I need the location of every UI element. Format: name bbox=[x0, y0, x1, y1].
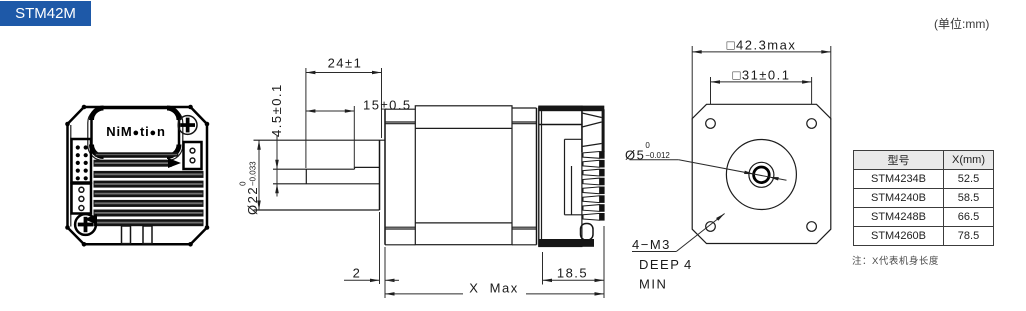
pilot boss circle bbox=[726, 140, 796, 210]
shaft flat step bbox=[354, 167, 356, 169]
mounting hole TR bbox=[807, 119, 817, 129]
title badge STM42M bbox=[0, 1, 91, 26]
dim Ø22 0/-0.033 vertical bbox=[258, 140, 260, 210]
svg-text:X Max: X Max bbox=[469, 281, 518, 296]
svg-text:15±0.5: 15±0.5 bbox=[363, 98, 412, 113]
boss front face bbox=[379, 140, 381, 210]
table note bbox=[852, 253, 939, 267]
dim square 31±0.1 bbox=[710, 77, 712, 104]
dim 15±0.5 bbox=[353, 106, 355, 168]
svg-text:18.5: 18.5 bbox=[557, 266, 588, 281]
octagon corner nodes bbox=[82, 105, 87, 110]
svg-text:NiM●ti●n: NiM●ti●n bbox=[106, 124, 165, 139]
svg-text:24±1: 24±1 bbox=[328, 56, 363, 71]
dim 2 bbox=[379, 212, 381, 284]
svg-text:MIN: MIN bbox=[639, 277, 667, 292]
shaft full-diameter top bbox=[355, 166, 380, 168]
rear connector pins bbox=[583, 152, 600, 159]
fin end arrow left near screw bbox=[84, 214, 97, 225]
unit note bbox=[934, 15, 1026, 32]
driver housing side bbox=[539, 106, 582, 246]
svg-text:4: 4 bbox=[684, 257, 693, 272]
mounting hole BR bbox=[807, 222, 817, 232]
shaft end face bbox=[305, 169, 307, 184]
mounting hole TL bbox=[706, 119, 716, 129]
front view motor face octagon bbox=[692, 104, 831, 243]
bottom tab 1 bbox=[122, 226, 131, 244]
screw bottom-left bbox=[75, 214, 96, 235]
svg-text:4−M3: 4−M3 bbox=[632, 237, 671, 252]
shaft bottom + extension bbox=[273, 183, 380, 185]
fin end arrow right bbox=[168, 158, 181, 168]
rear end bell bbox=[512, 107, 537, 109]
label plate corner accents bbox=[92, 108, 104, 120]
flange front face bbox=[384, 109, 386, 245]
svg-text:2: 2 bbox=[353, 266, 362, 281]
connector 1x3 left bbox=[72, 184, 92, 214]
connector 2-pin right bbox=[184, 142, 202, 169]
label plate bbox=[92, 108, 180, 157]
dim square 42.3max bbox=[691, 46, 693, 120]
connector 2x5 left bbox=[72, 139, 92, 183]
boss top + extension to dim bbox=[254, 139, 386, 141]
svg-text:Ø220−0.033: Ø220−0.033 bbox=[239, 161, 261, 215]
driver bottom band bbox=[539, 239, 594, 247]
body inner edge line bbox=[70, 125, 72, 227]
left view: integrated motor unit body outline bbox=[68, 107, 208, 244]
heatsink fin shadow under label bbox=[95, 152, 179, 156]
driver bottom boss bbox=[581, 224, 594, 241]
svg-text:□31±0.1: □31±0.1 bbox=[732, 68, 790, 83]
boss bottom + extension bbox=[254, 209, 380, 211]
shaft circle bbox=[754, 167, 770, 183]
dim 24±1 bbox=[305, 68, 307, 168]
side view: shaft flat surface + extension bbox=[273, 168, 355, 170]
bottom tab 2 bbox=[143, 226, 152, 244]
svg-text:DEEP: DEEP bbox=[639, 257, 680, 272]
bearing ring bbox=[749, 162, 774, 187]
label plate recess outline bbox=[88, 108, 183, 161]
heatsink fins bbox=[94, 160, 173, 167]
rear connector cap bbox=[581, 106, 583, 152]
spec table bbox=[853, 150, 994, 246]
screw top-right bbox=[178, 116, 197, 135]
svg-text:4.5±0.1: 4.5±0.1 bbox=[269, 83, 284, 137]
driver inner board bbox=[564, 139, 566, 215]
svg-text:□42.3max: □42.3max bbox=[727, 38, 797, 53]
motor middle lamination block bbox=[415, 106, 512, 245]
dim 4.5±0.1 vertical bbox=[276, 136, 278, 197]
dim 18.5 bbox=[542, 252, 544, 285]
flange outline bbox=[385, 108, 415, 110]
mounting hole BL bbox=[706, 222, 716, 232]
dim X Max bbox=[603, 226, 605, 298]
